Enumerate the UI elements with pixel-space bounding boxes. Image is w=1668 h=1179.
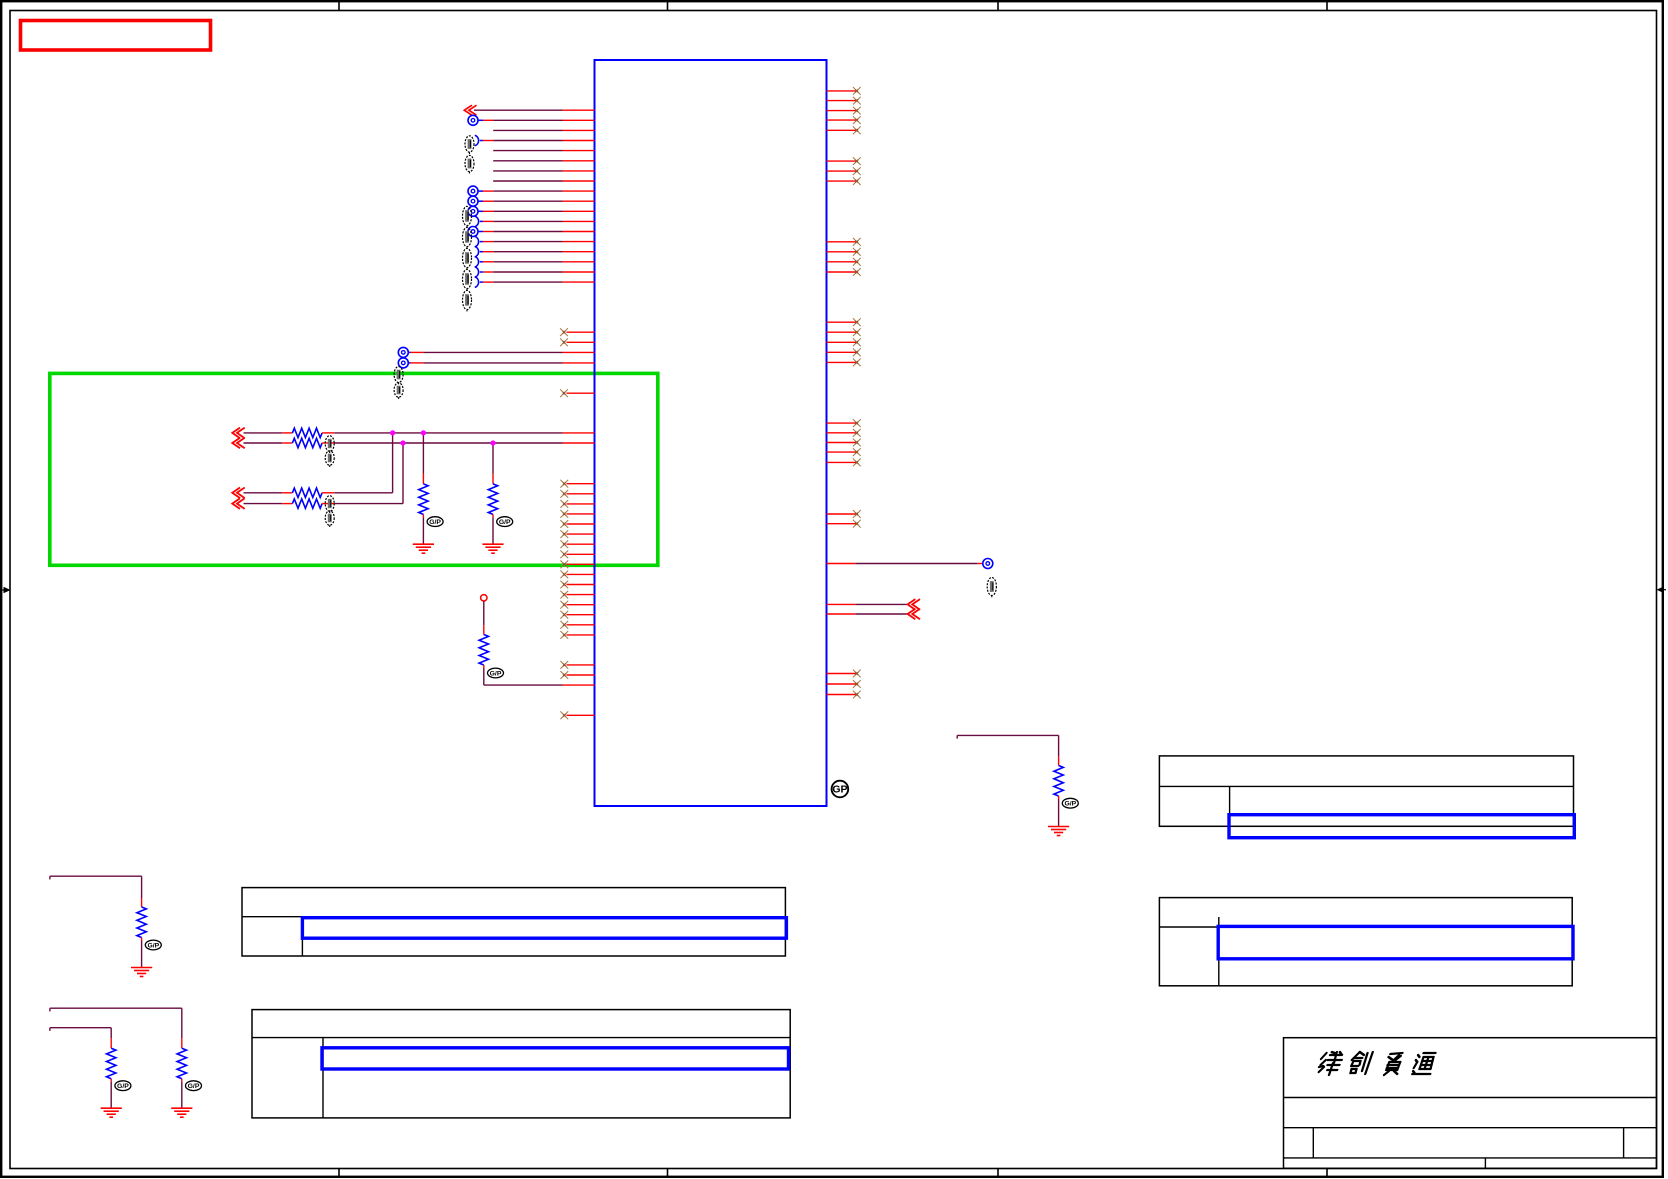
svg-text:G/P: G/P xyxy=(429,519,441,526)
svg-text:G/P: G/P xyxy=(1064,801,1076,808)
svg-text:G/P: G/P xyxy=(117,1083,129,1090)
svg-text:G/P: G/P xyxy=(147,942,159,949)
svg-text:G/P: G/P xyxy=(490,670,502,677)
svg-text:G/P: G/P xyxy=(499,519,511,526)
svg-text:G/P: G/P xyxy=(188,1083,200,1090)
svg-text:GP: GP xyxy=(832,784,847,796)
